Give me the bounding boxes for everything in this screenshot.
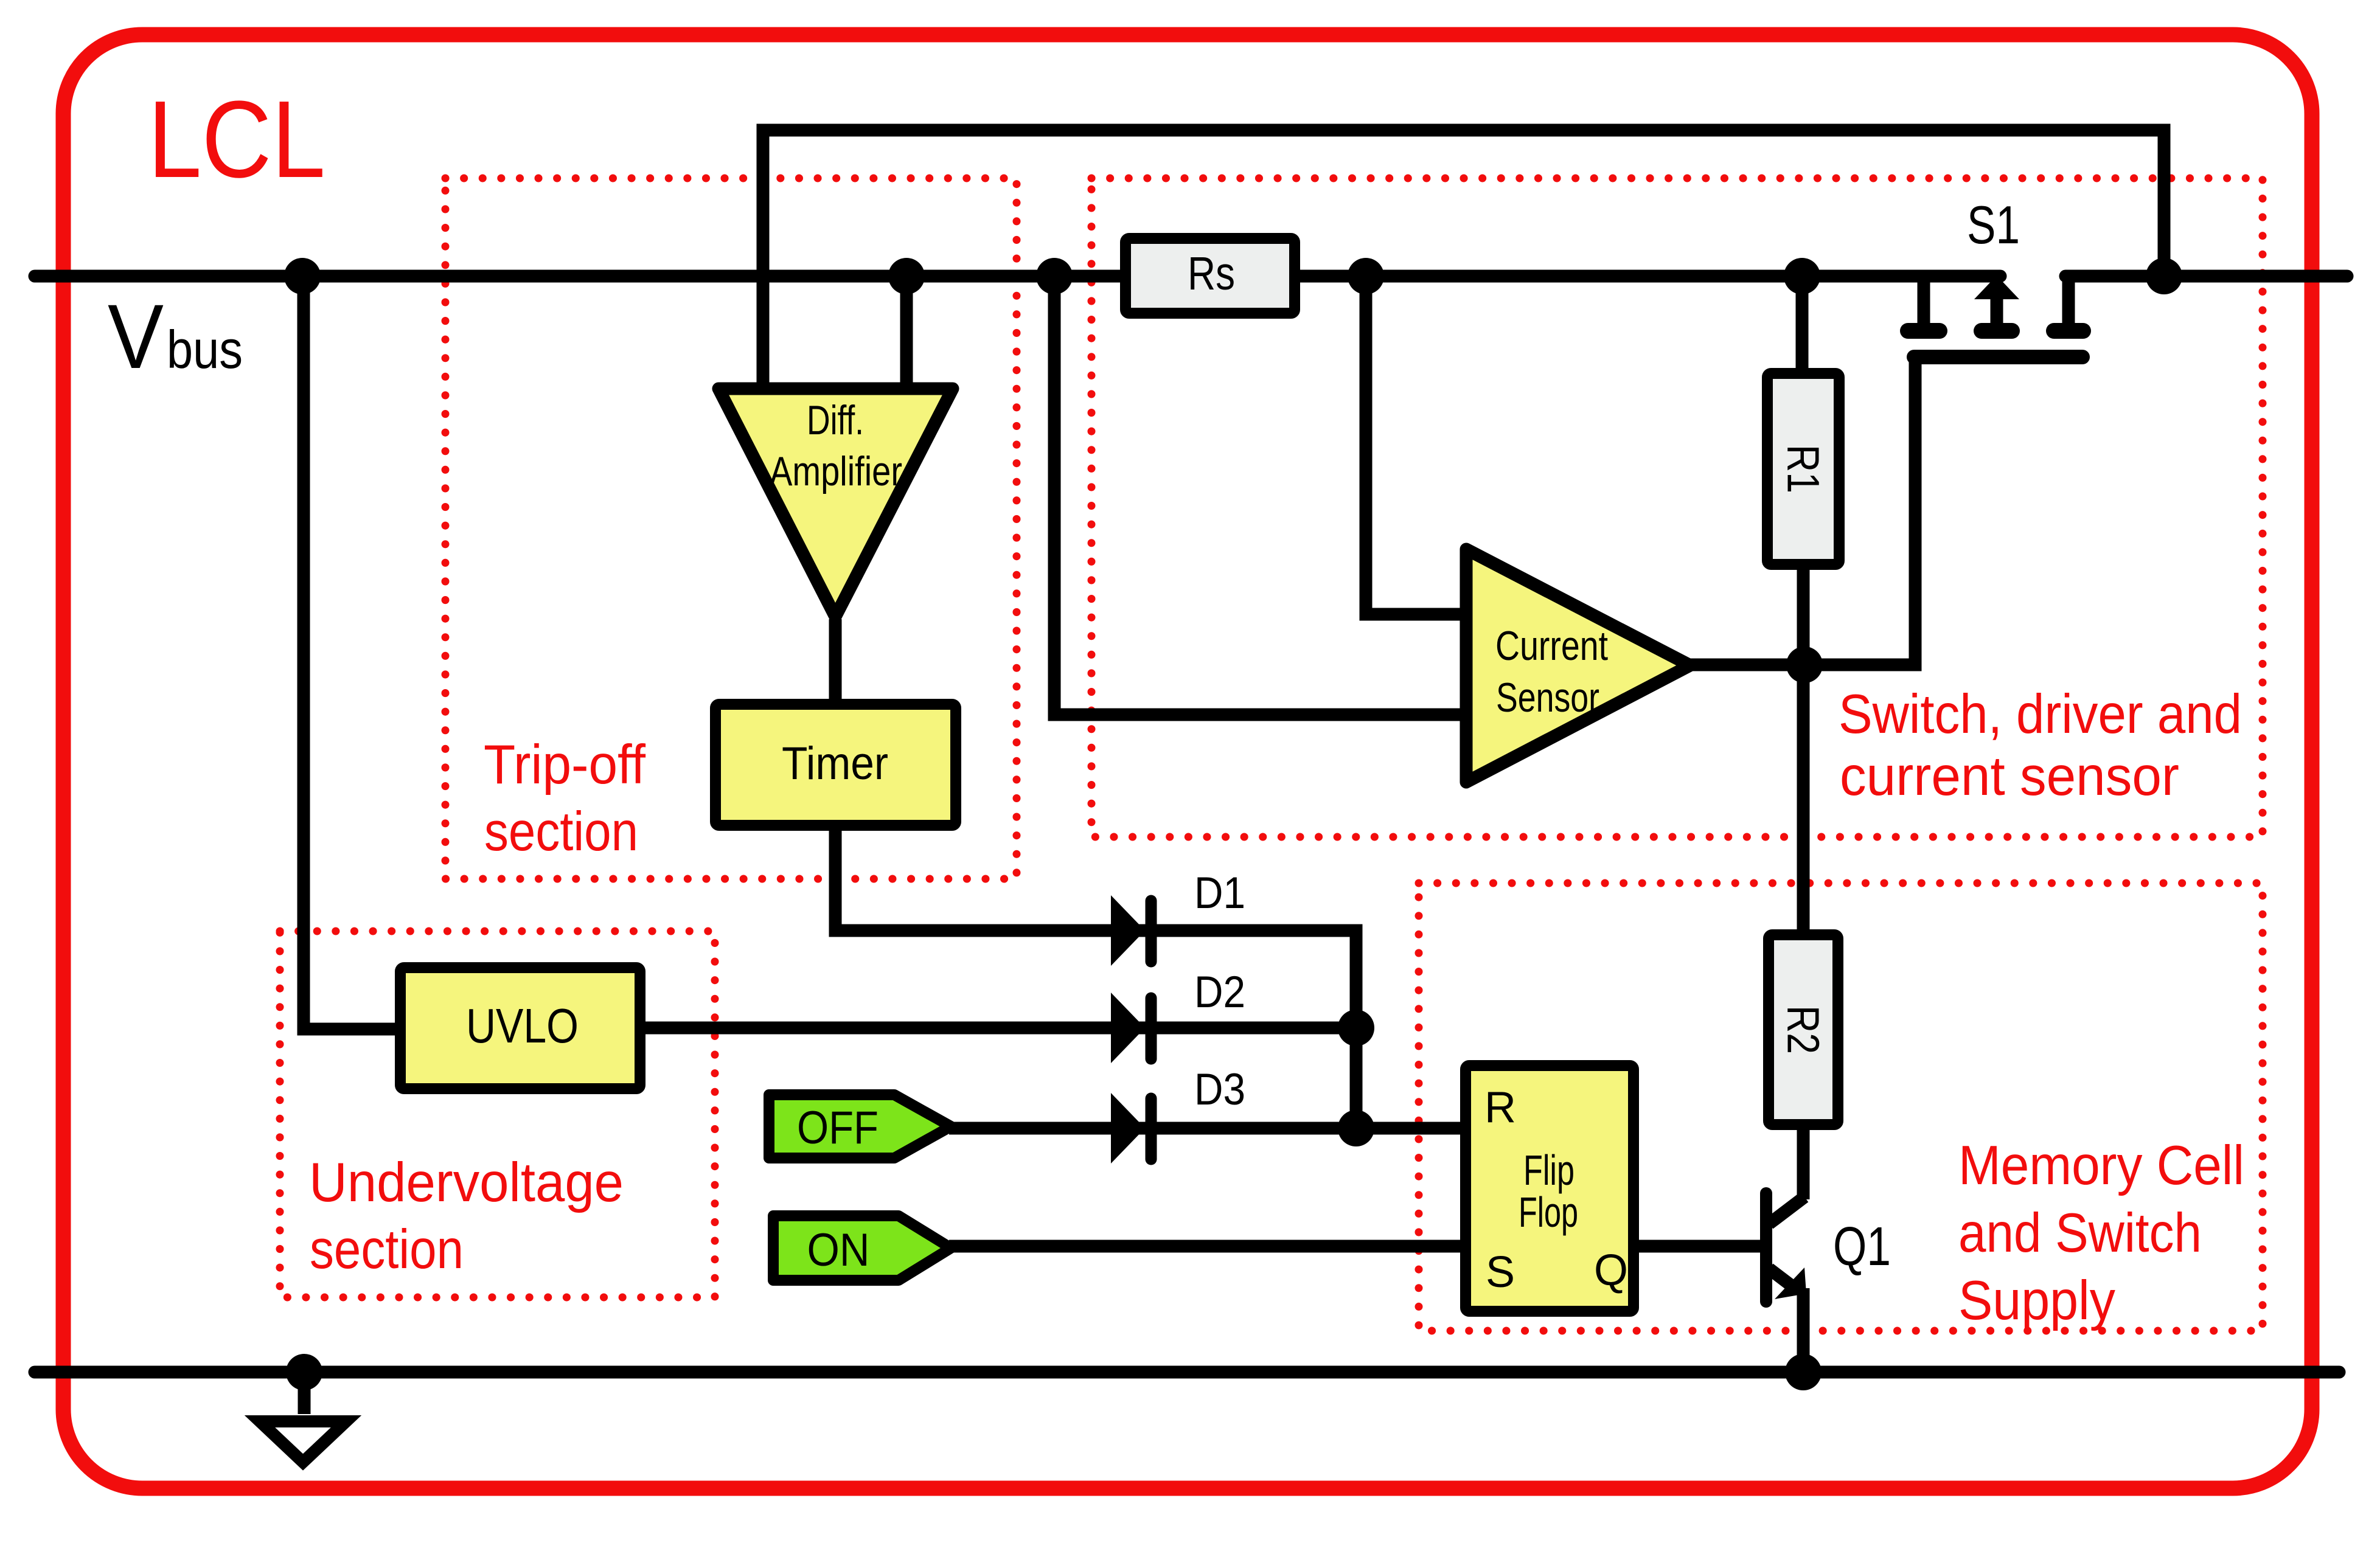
svg-text:current sensor: current sensor xyxy=(1840,746,2179,807)
svg-text:D2: D2 xyxy=(1194,968,1245,1017)
svg-text:S: S xyxy=(1486,1248,1515,1297)
svg-text:Timer: Timer xyxy=(782,738,888,789)
svg-text:UVLO: UVLO xyxy=(466,999,579,1053)
svg-text:Supply: Supply xyxy=(1958,1270,2115,1331)
svg-text:Switch, driver and: Switch, driver and xyxy=(1839,684,2242,745)
svg-text:D3: D3 xyxy=(1194,1065,1245,1114)
svg-text:Flop: Flop xyxy=(1519,1188,1578,1236)
svg-text:Amplifier: Amplifier xyxy=(770,448,902,494)
svg-text:Trip-off: Trip-off xyxy=(484,734,646,796)
svg-text:Q: Q xyxy=(1594,1246,1628,1295)
svg-text:R1: R1 xyxy=(1778,445,1829,493)
svg-text:Current: Current xyxy=(1495,623,1608,669)
svg-text:Sensor: Sensor xyxy=(1496,674,1599,721)
svg-text:section: section xyxy=(310,1219,464,1280)
svg-text:OFF: OFF xyxy=(797,1102,879,1154)
svg-text:Memory Cell: Memory Cell xyxy=(1958,1135,2244,1196)
svg-text:R: R xyxy=(1484,1083,1516,1132)
svg-text:Diff.: Diff. xyxy=(807,397,864,443)
svg-text:and Switch: and Switch xyxy=(1958,1202,2202,1264)
svg-text:Undervoltage: Undervoltage xyxy=(309,1152,624,1213)
svg-text:ON: ON xyxy=(807,1224,870,1276)
svg-text:D1: D1 xyxy=(1194,869,1245,918)
svg-text:R2: R2 xyxy=(1778,1005,1829,1054)
svg-text:LCL: LCL xyxy=(148,78,325,201)
svg-text:Q1: Q1 xyxy=(1833,1216,1891,1277)
svg-text:bus: bus xyxy=(167,319,243,380)
svg-text:section: section xyxy=(484,801,638,862)
svg-text:Flip: Flip xyxy=(1523,1146,1574,1194)
svg-text:V: V xyxy=(108,285,164,387)
svg-text:Rs: Rs xyxy=(1188,248,1235,300)
svg-text:S1: S1 xyxy=(1967,195,2020,255)
